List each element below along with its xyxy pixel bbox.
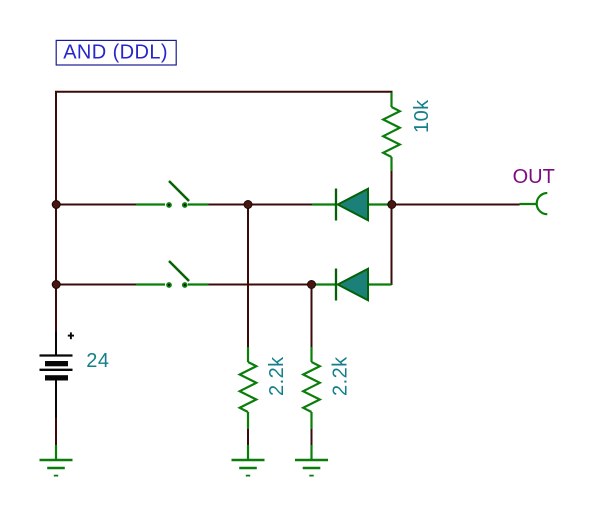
svg-text:24: 24	[86, 350, 109, 372]
svg-text:OUT: OUT	[513, 166, 555, 188]
svg-text:10k: 10k	[411, 99, 433, 133]
svg-text:2.2k: 2.2k	[266, 356, 288, 396]
svg-text:2.2k: 2.2k	[330, 356, 352, 396]
svg-text:AND (DDL): AND (DDL)	[63, 42, 168, 64]
